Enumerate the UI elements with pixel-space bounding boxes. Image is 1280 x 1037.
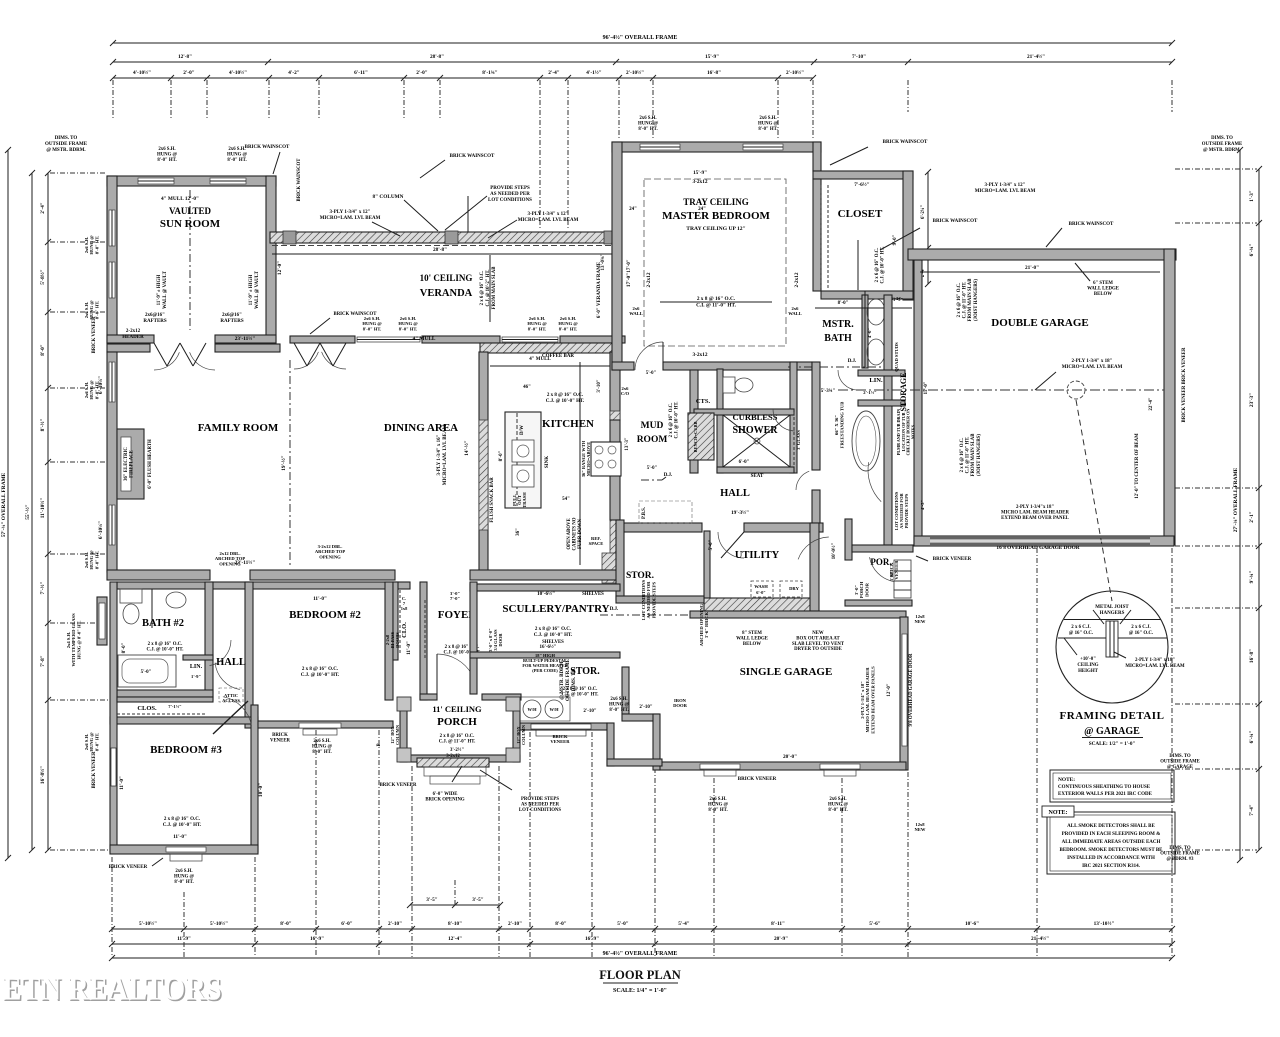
svg-text:11'-10½": 11'-10½" [39, 498, 46, 519]
svg-text:2-2x12: 2-2x12 [646, 272, 652, 287]
utility door arc [718, 532, 744, 558]
svg-text:17'-0": 17'-0" [627, 259, 632, 273]
svg-text:MUD: MUD [641, 421, 664, 431]
svg-text:QUAD STUDS: QUAD STUDS [894, 342, 899, 372]
svg-text:20'-9": 20'-9" [774, 936, 788, 942]
garage centerlines [838, 389, 1164, 391]
svg-text:CLOSET: CLOSET [838, 208, 883, 220]
svg-text:VENEER: VENEER [894, 560, 899, 580]
svg-text:BATH #2: BATH #2 [142, 618, 184, 629]
svg-text:2x6 S.H.: 2x6 S.H. [759, 116, 776, 121]
svg-text:C/O: C/O [621, 391, 630, 396]
svg-text:LIN.: LIN. [869, 377, 883, 384]
svg-text:2x6 S.H.: 2x6 S.H. [175, 869, 192, 874]
veranda dim line [272, 253, 618, 255]
svg-text:SINGLE GARAGE: SINGLE GARAGE [740, 666, 833, 678]
wall single garage bottom [659, 762, 906, 770]
wall mud right [690, 370, 698, 473]
svg-text:(JOIST HANGERS): (JOIST HANGERS) [974, 279, 979, 321]
svg-text:BRICK VENEER: BRICK VENEER [109, 865, 148, 870]
svg-text:HUNG @: HUNG @ [758, 121, 779, 126]
svg-text:3-PLY 1-3/4" x 12": 3-PLY 1-3/4" x 12" [330, 210, 371, 215]
svg-text:HANGERS: HANGERS [1100, 611, 1125, 616]
svg-text:5'-10½": 5'-10½" [210, 920, 228, 927]
svg-text:5'-0": 5'-0" [141, 670, 152, 675]
svg-text:2x6@16": 2x6@16" [145, 313, 165, 318]
svg-text:2 x 6 @ 16" O.C.: 2 x 6 @ 16" O.C. [960, 438, 965, 473]
svg-text:23'-11½": 23'-11½" [235, 335, 256, 342]
svg-text:MICRO=LAM. LVL BEAM: MICRO=LAM. LVL BEAM [975, 189, 1036, 194]
bed3 door arc [223, 697, 252, 726]
svg-text:1'-3": 1'-3" [891, 296, 901, 301]
svg-text:PROVIDE STEPS: PROVIDE STEPS [521, 797, 559, 802]
wall single garage top [690, 611, 906, 618]
svg-text:HUNG @: HUNG @ [227, 152, 248, 157]
svg-text:AS NEEDED PER: AS NEEDED PER [521, 802, 560, 807]
wall por south [845, 600, 912, 606]
svg-text:8'-0": 8'-0" [40, 344, 46, 356]
svg-text:2'-10": 2'-10" [388, 921, 402, 927]
svg-text:16'-9": 16'-9" [310, 936, 324, 942]
veranda column [283, 231, 296, 244]
svg-text:12'-4": 12'-4" [448, 936, 462, 942]
top overall dimension line 96-4.5 [113, 42, 1172, 44]
svg-text:FURR DOWN: FURR DOWN [578, 518, 583, 549]
svg-text:STOR.: STOR. [570, 666, 600, 677]
svg-text:ALL SMOKE DETECTORS SHALL BE: ALL SMOKE DETECTORS SHALL BE [1067, 824, 1155, 829]
svg-text:5'-0": 5'-0" [647, 466, 658, 471]
svg-text:DRY: DRY [789, 586, 799, 591]
svg-text:FROM MAIN SLAB: FROM MAIN SLAB [492, 266, 497, 310]
closet shelves dashed [820, 185, 822, 290]
svg-text:HUNG @: HUNG @ [157, 152, 178, 157]
svg-text:3-2x12: 3-2x12 [692, 352, 707, 358]
svg-text:7'-8": 7'-8" [40, 655, 46, 667]
svg-text:LOT CONDITIONS: LOT CONDITIONS [488, 198, 532, 203]
svg-text:54": 54" [562, 497, 570, 502]
sun room top windows [138, 178, 174, 184]
svg-text:6'-10¼": 6'-10¼" [98, 521, 104, 539]
bed2 door arc [215, 663, 240, 690]
mstr bath vanity [862, 295, 868, 368]
svg-text:VENEER: VENEER [550, 739, 570, 744]
svg-text:2'-10": 2'-10" [508, 921, 522, 927]
svg-text:8'-0" HT.: 8'-0" HT. [708, 808, 727, 813]
wall family bottom seg2 [250, 570, 395, 580]
svg-text:C.J. @ 11'-0" HT.: C.J. @ 11'-0" HT. [963, 282, 968, 319]
closet right dim line [927, 172, 929, 284]
left horiz extension lines [50, 172, 107, 174]
bottom dimension tier B [112, 943, 1172, 945]
svg-text:LOT CONDITIONS: LOT CONDITIONS [519, 808, 561, 813]
svg-text:SCULLERY/PANTRY: SCULLERY/PANTRY [502, 603, 609, 615]
svg-text:16'-6½": 16'-6½" [539, 645, 556, 650]
garage dim line [920, 271, 1160, 273]
svg-text:VERANDA: VERANDA [420, 288, 473, 299]
svg-text:5'-10½": 5'-10½" [139, 920, 157, 927]
svg-text:7'-10": 7'-10" [852, 54, 866, 60]
svg-text:8'-½": 8'-½" [39, 419, 46, 432]
svg-text:BEDROOM #3: BEDROOM #3 [150, 744, 222, 756]
svg-text:8'-1¾": 8'-1¾" [482, 69, 498, 76]
svg-text:C.J. @ 10'-0" HT.: C.J. @ 10'-0" HT. [534, 633, 573, 638]
detail leader dash [1076, 400, 1112, 601]
svg-text:DIMS. TO: DIMS. TO [55, 136, 78, 141]
svg-text:PROVIDE STEPS: PROVIDE STEPS [904, 493, 909, 528]
wall front bedroom2 [258, 721, 393, 728]
svg-text:2 x 6 @ 16" O.C.: 2 x 6 @ 16" O.C. [875, 248, 880, 283]
wall foyer front left [420, 694, 437, 700]
svg-text:8'-0" HT.: 8'-0" HT. [94, 301, 99, 320]
shower X tile lines [723, 415, 790, 467]
mb joist arrows [660, 301, 772, 303]
wall sun room bottom left segment [107, 335, 154, 343]
svg-text:DOORS: DOORS [395, 632, 400, 648]
wall porch right [513, 700, 520, 762]
svg-text:8'-0" HT.: 8'-0" HT. [312, 750, 331, 755]
wall hall bottom east [744, 523, 823, 532]
svg-text:12'-8": 12'-8" [178, 54, 192, 60]
svg-text:HUNG @: HUNG @ [638, 121, 659, 126]
svg-text:BRICK WAINSCOT: BRICK WAINSCOT [450, 154, 495, 159]
svg-text:HUNG @: HUNG @ [609, 702, 630, 707]
svg-text:BRICK VENEER: BRICK VENEER [92, 751, 97, 788]
svg-text:(JOIST HANGERS): (JOIST HANGERS) [977, 434, 982, 476]
svg-text:2 x 8 @ 16" O.C.: 2 x 8 @ 16" O.C. [148, 642, 183, 647]
svg-text:OUTSIDE FRAME: OUTSIDE FRAME [1202, 142, 1242, 147]
wall family top seg1 [107, 344, 150, 352]
svg-text:27'-⅛" OVERALL FRAME: 27'-⅛" OVERALL FRAME [1233, 467, 1239, 532]
wall utility left [704, 531, 710, 611]
svg-text:FROM MAIN SLAB: FROM MAIN SLAB [968, 278, 973, 322]
svg-text:METAL JOIST: METAL JOIST [1095, 605, 1129, 610]
vanity counter line [864, 291, 866, 367]
bottom dimension tier A [112, 928, 1172, 930]
svg-text:2 x 8 @ 16" O.C.: 2 x 8 @ 16" O.C. [547, 393, 584, 398]
svg-text:4'-2": 4'-2" [288, 70, 300, 76]
svg-text:NEW: NEW [915, 619, 926, 624]
svg-text:MICRO=LAM. LVL BEAM: MICRO=LAM. LVL BEAM [518, 218, 579, 223]
svg-text:HUNG @ 8'-0" HT.: HUNG @ 8'-0" HT. [76, 621, 81, 660]
svg-text:BRICK WAINSCOT: BRICK WAINSCOT [883, 140, 928, 145]
svg-text:BRICK WAINSCOT: BRICK WAINSCOT [1069, 222, 1114, 227]
sg overhead door [902, 634, 907, 746]
svg-text:DOOR: DOOR [498, 633, 503, 647]
svg-text:8'-0" HT.: 8'-0" HT. [227, 158, 246, 163]
bath door arc [796, 471, 809, 490]
svg-text:WALL @ VAULT: WALL @ VAULT [163, 270, 168, 309]
wall lin bottom [858, 400, 905, 406]
svg-text:11'-0": 11'-0" [173, 834, 187, 840]
svg-text:5'-0": 5'-0" [617, 921, 629, 927]
svg-text:8'-0" HT.: 8'-0" HT. [559, 326, 578, 331]
wall stor left [616, 520, 624, 600]
svg-text:96'-4½" OVERALL FRAME: 96'-4½" OVERALL FRAME [603, 950, 678, 957]
svg-text:KITCHEN: KITCHEN [542, 418, 594, 430]
svg-text:(PER CODE): (PER CODE) [532, 668, 558, 673]
bath2 tub [118, 655, 176, 687]
svg-text:2-2x12: 2-2x12 [126, 329, 141, 334]
svg-text:CEILING: CEILING [1077, 663, 1098, 668]
svg-text:8'-0" HT.: 8'-0" HT. [828, 808, 847, 813]
svg-text:CLO.: CLO. [401, 622, 408, 638]
svg-text:1'-9": 1'-9" [191, 674, 201, 679]
wall bedroom2 left [245, 582, 253, 728]
svg-text:16'-8": 16'-8" [1249, 649, 1255, 663]
svg-text:8'-0" HT.: 8'-0" HT. [157, 158, 176, 163]
bath2 fixtures [120, 589, 142, 603]
svg-text:C.J. @ 10'-0" HT.: C.J. @ 10'-0" HT. [163, 823, 202, 828]
svg-text:DIMS. TO: DIMS. TO [1169, 754, 1191, 759]
wall foyer front right [482, 694, 521, 700]
svg-text:+10'-0": +10'-0" [1080, 657, 1096, 662]
svg-text:28'-8": 28'-8" [433, 247, 447, 253]
svg-text:SHOWER: SHOWER [732, 425, 778, 436]
svg-text:2'-4": 2'-4" [548, 70, 560, 76]
svg-text:SCALE: 1/2" = 1'-0": SCALE: 1/2" = 1'-0" [1089, 741, 1136, 747]
svg-text:11'-9"± HIGH: 11'-9"± HIGH [157, 275, 162, 306]
svg-text:9'8 OVERHEAD GARAGE DOOR: 9'8 OVERHEAD GARAGE DOOR [909, 653, 914, 726]
svg-text:SEAT: SEAT [751, 474, 764, 479]
framing detail circle [1056, 591, 1168, 703]
WH circles [516, 697, 570, 721]
wall master bedroom top [612, 142, 821, 152]
bedroom2 window [299, 723, 341, 728]
svg-text:1'-3": 1'-3" [1249, 190, 1255, 202]
svg-text:4'-0": 4'-0" [867, 328, 872, 338]
svg-text:COFFEE BAR: COFFEE BAR [542, 354, 574, 359]
wall scullery/stor divider [470, 652, 620, 658]
right dim tier [1258, 169, 1260, 850]
clos rod dashed [117, 713, 205, 715]
svg-text:BRICK VENEER: BRICK VENEER [933, 557, 972, 562]
kitchen island [505, 412, 541, 508]
veranda front wall seg2 [422, 336, 500, 343]
wall left family room [107, 352, 117, 572]
svg-text:EXTERIOR WALLS PER 2021 IRC CO: EXTERIOR WALLS PER 2021 IRC CODE [1058, 792, 1153, 797]
wall bedroom3 top [110, 717, 258, 724]
svg-text:2'-10": 2'-10" [639, 705, 653, 710]
svg-text:2-PLY 1-3/4"x 18": 2-PLY 1-3/4"x 18" [1016, 505, 1054, 510]
utility bottom hatched wall [704, 598, 812, 611]
svg-text:5'-4": 5'-4" [678, 921, 690, 927]
svg-text:RAFTERS: RAFTERS [220, 319, 244, 324]
closet arrow line [857, 240, 859, 290]
svg-text:2 x 6 C.J.: 2 x 6 C.J. [1131, 625, 1150, 630]
svg-text:P.B.S.: P.B.S. [642, 507, 647, 519]
svg-text:2 x 8 @ 16" O.C.: 2 x 8 @ 16" O.C. [164, 817, 201, 822]
wall double garage bottom [914, 536, 1174, 546]
svg-text:2'-10½": 2'-10½" [786, 69, 804, 76]
svg-text:CLOS.: CLOS. [137, 705, 157, 712]
svg-text:W/H: W/H [549, 707, 559, 712]
svg-text:2 x 6 @ 16" O.C.: 2 x 6 @ 16" O.C. [957, 283, 962, 318]
svg-text:7'-1½": 7'-1½" [168, 704, 182, 709]
svg-text:DOOR: DOOR [673, 703, 687, 708]
svg-text:3'-2½": 3'-2½" [450, 748, 464, 753]
svg-text:15'-9": 15'-9" [705, 54, 719, 60]
svg-text:8'-11": 8'-11" [771, 921, 785, 927]
svg-text:FIREPLACE: FIREPLACE [130, 450, 135, 478]
svg-text:@ GARAGE: @ GARAGE [1084, 726, 1140, 737]
svg-text:BRICK WAINSCOT: BRICK WAINSCOT [334, 312, 378, 317]
svg-text:MICRO=LAM. LVL BEAM: MICRO=LAM. LVL BEAM [1125, 664, 1185, 669]
veranda front wall seg3 [560, 336, 625, 343]
svg-text:D/W: D/W [520, 425, 525, 435]
svg-text:SLAB LEVEL TO VENT: SLAB LEVEL TO VENT [792, 642, 845, 647]
wall shower top [694, 409, 794, 415]
svg-text:8'-0" HT.: 8'-0" HT. [363, 326, 382, 331]
svg-text:AS NEEDED PER: AS NEEDED PER [490, 192, 530, 197]
svg-text:8'-0" HT.: 8'-0" HT. [758, 127, 777, 132]
svg-text:11'-0": 11'-0" [313, 596, 327, 602]
kitchen counter top edge [490, 365, 619, 367]
svg-text:8'-0" HT.: 8'-0" HT. [174, 880, 193, 885]
svg-text:MICRO LAM. BEAM HEADER: MICRO LAM. BEAM HEADER [1001, 510, 1069, 515]
wall front mid [519, 723, 607, 730]
top extension lines [112, 80, 114, 120]
svg-text:2x6 S.H.: 2x6 S.H. [158, 147, 175, 152]
svg-text:CONTINUOUS SHEATHING TO HOUSE: CONTINUOUS SHEATHING TO HOUSE [1058, 785, 1151, 790]
svg-text:C.J. @ 10'-0" HT.: C.J. @ 10'-0" HT. [147, 647, 184, 652]
svg-text:3'-5": 3'-5" [472, 897, 484, 903]
svg-text:21'-0": 21'-0" [1025, 265, 1039, 271]
bottom mini dim 3-5 3-5 [410, 904, 500, 906]
wall bath2 bottom [117, 690, 213, 697]
svg-text:6'-0": 6'-0" [756, 590, 766, 595]
wall step down mid [607, 723, 614, 766]
svg-text:INSTALLED IN ACCORDANCE WITH: INSTALLED IN ACCORDANCE WITH [1067, 856, 1155, 861]
svg-text:24": 24" [698, 207, 706, 212]
mb top windows [640, 144, 680, 150]
veranda right wall [612, 243, 620, 352]
wall clos top [117, 697, 213, 702]
svg-text:1x8: 1x8 [401, 606, 408, 611]
svg-text:4'-10½": 4'-10½" [133, 69, 151, 76]
wall single garage left lower [653, 714, 660, 770]
svg-text:16'-8½": 16'-8½" [39, 766, 46, 784]
svg-text:SCALE: 1/4" = 1'-0": SCALE: 1/4" = 1'-0" [613, 988, 667, 994]
svg-text:2-PLY 1-3/4" x 18": 2-PLY 1-3/4" x 18" [1135, 658, 1175, 663]
svg-text:EXTEND BEAM OVER PANEL: EXTEND BEAM OVER PANEL [1001, 516, 1069, 521]
mb door arc [635, 342, 663, 370]
fireplace [117, 429, 144, 499]
wall bedroom3 bottom [110, 845, 258, 854]
veranda beam hatched [270, 232, 620, 243]
svg-text:55'-½": 55'-½" [24, 504, 31, 520]
svg-text:FRAMING DETAIL: FRAMING DETAIL [1060, 710, 1165, 722]
svg-text:11'-9"± HIGH: 11'-9"± HIGH [249, 275, 254, 306]
svg-text:SPACE: SPACE [589, 541, 604, 546]
wall family bottom seg3 [470, 570, 620, 580]
kitchen top wall hatched [480, 343, 620, 353]
svg-text:DIMS. TO: DIMS. TO [1169, 846, 1191, 851]
svg-text:10' CEILING: 10' CEILING [420, 273, 473, 283]
svg-text:8'-0" HT.: 8'-0" HT. [528, 326, 547, 331]
por door arc [870, 557, 894, 581]
svg-text:TRAY CEILING: TRAY CEILING [683, 197, 749, 207]
svg-text:ACCESS: ACCESS [222, 698, 240, 703]
svg-text:3-2x12: 3-2x12 [446, 754, 460, 759]
svg-text:HEADER: HEADER [122, 335, 144, 340]
wall scullery top [470, 584, 620, 591]
svg-text:3'-6" BRICK: 3'-6" BRICK [704, 612, 709, 639]
porch steps [424, 767, 486, 776]
svg-text:P: P [377, 743, 382, 746]
detail ceiling joist band [1064, 619, 1161, 621]
wall bath2 top [117, 582, 410, 589]
hall arch arc [868, 462, 881, 502]
svg-text:@ MSTR. BDRM.: @ MSTR. BDRM. [46, 148, 86, 153]
svg-text:C.J. @ 10'-0" HT.: C.J. @ 10'-0" HT. [546, 399, 585, 404]
wall bath2/hall divider [205, 582, 213, 700]
svg-text:FLUSH SNACK BAR: FLUSH SNACK BAR [490, 477, 495, 523]
svg-text:CURBLESS: CURBLESS [733, 412, 778, 422]
svg-text:HALL: HALL [216, 657, 246, 668]
svg-text:NOTE:: NOTE: [1048, 810, 1067, 816]
svg-text:D.J.: D.J. [848, 359, 857, 364]
svg-text:6'-¾": 6'-¾" [1248, 731, 1255, 744]
svg-text:MICRO=LAM. LVL BEAM: MICRO=LAM. LVL BEAM [443, 424, 448, 485]
range [591, 442, 621, 476]
svg-text:8'-0" HT.: 8'-0" HT. [638, 127, 657, 132]
wall closet right [903, 171, 913, 300]
svg-text:16'8 OVERHEAD GARAGE DOOR: 16'8 OVERHEAD GARAGE DOOR [996, 545, 1079, 551]
svg-text:RAFTERS: RAFTERS [143, 319, 167, 324]
svg-text:NOTE:: NOTE: [1058, 777, 1075, 783]
svg-text:OUTSIDE FRAME: OUTSIDE FRAME [1160, 760, 1199, 765]
svg-text:8'-0" HT.: 8'-0" HT. [609, 708, 628, 713]
por door arc2 [798, 537, 829, 559]
svg-text:FROM MAIN SLAB: FROM MAIN SLAB [971, 433, 976, 477]
svg-text:13'-10½": 13'-10½" [1094, 920, 1115, 927]
svg-text:3-PLY 1-3/4" x 16": 3-PLY 1-3/4" x 16" [437, 434, 442, 475]
svg-text:28'-8": 28'-8" [430, 54, 444, 60]
svg-text:CTS.: CTS. [696, 398, 711, 405]
svg-text:@ 16" O.C.: @ 16" O.C. [1129, 631, 1153, 636]
svg-text:MICRO=ABOVE: MICRO=ABOVE [586, 442, 591, 477]
wall hall bottom west [621, 523, 702, 532]
svg-text:BOX OUT AREA AT: BOX OUT AREA AT [796, 636, 840, 641]
wall bath left of tub upper [812, 362, 820, 470]
svg-text:LIN.: LIN. [190, 664, 203, 670]
svg-text:2 x 6 C.J.: 2 x 6 C.J. [1071, 625, 1090, 630]
wall closet top [813, 171, 913, 179]
svg-text:ALL IMMEDIATE AREAS OUTSIDE EA: ALL IMMEDIATE AREAS OUTSIDE EACH [1062, 840, 1161, 845]
svg-text:5'-0": 5'-0" [646, 371, 657, 376]
kitchen right wall upper [610, 352, 620, 420]
svg-text:2x6 S.H.: 2x6 S.H. [313, 739, 330, 744]
svg-text:11' CEILING: 11' CEILING [432, 704, 482, 714]
veranda front windows [357, 337, 420, 342]
detail beam [1106, 621, 1118, 657]
svg-text:HUNG @: HUNG @ [312, 744, 333, 749]
wall scullery left / foyer right [470, 582, 477, 694]
svg-text:BRICK WAINSCOT: BRICK WAINSCOT [297, 158, 302, 202]
svg-text:4'-5": 4'-5" [920, 500, 925, 510]
veranda beam ledger dash [272, 245, 618, 247]
svg-text:HEIGHT: HEIGHT [1078, 669, 1099, 674]
front door arc [437, 654, 472, 674]
svg-text:OUTSIDE FRAME: OUTSIDE FRAME [1160, 852, 1199, 857]
svg-text:STOR.: STOR. [626, 571, 654, 581]
svg-text:6'-0" WIDE: 6'-0" WIDE [433, 792, 458, 797]
svg-text:STORAGE: STORAGE [899, 373, 908, 412]
svg-text:8'-0": 8'-0" [280, 921, 292, 927]
svg-text:MICRO=LAM. LVL BEAM: MICRO=LAM. LVL BEAM [320, 216, 381, 221]
svg-text:4'-1½": 4'-1½" [586, 69, 602, 76]
bottom overall dimension [112, 957, 1172, 959]
